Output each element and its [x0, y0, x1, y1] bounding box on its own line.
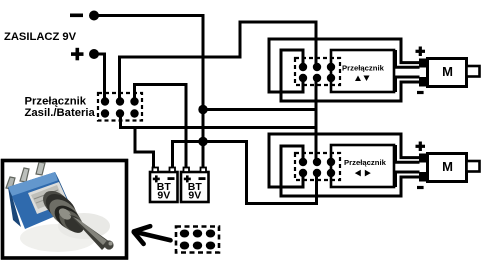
switch U2 pin 2 — [313, 158, 321, 166]
motor M2 plus terminal — [419, 154, 428, 163]
wire junction J2 left to battery 1 minus post — [173, 142, 204, 169]
switch U1 dashed box — [295, 58, 340, 85]
wire power switch top-right pin over to battery 2 plus post — [135, 85, 187, 169]
battery BT1 body — [150, 172, 178, 202]
switch U1 down arrow — [364, 76, 370, 82]
switch U1 pin 2 — [313, 63, 321, 71]
connector pin 1 — [180, 230, 189, 238]
arrow pointing to photo — [135, 232, 171, 241]
motor M1 shaft — [467, 66, 480, 77]
svg-text:ZASILACZ 9V: ZASILACZ 9V — [4, 31, 77, 43]
photo shadow — [20, 224, 96, 252]
wire box-top extension to motor plus lead 2 — [396, 50, 420, 67]
battery BT2 labels — [184, 178, 191, 181]
connector pin 2 — [193, 230, 202, 238]
wire C-up: top-left pin loop to motor minus lead 2 — [281, 50, 420, 101]
switch U2 pin 5 — [313, 169, 321, 177]
motor M2 plus mark — [416, 145, 426, 148]
battery BT2 plus post — [184, 168, 190, 173]
power switch pin 5 — [116, 109, 124, 117]
switch U1 pin 4 — [299, 74, 307, 82]
motor M2 body — [428, 154, 467, 182]
power switch pin 3 — [130, 97, 138, 105]
wire C-low: top-left pin loop to motor minus lead 2 — [281, 146, 420, 196]
svg-text:Zasil./Bateria: Zasil./Bateria — [25, 107, 96, 119]
switch blue body — [8, 172, 72, 229]
svg-text:9V: 9V — [188, 190, 201, 202]
wire power switch bottom-middle pin down right to middle rail — [121, 114, 317, 128]
connector pin 6 — [206, 242, 215, 250]
node junction J1 — [198, 105, 207, 114]
power switch pin 1 — [101, 97, 109, 105]
power switch dashed box — [98, 93, 142, 121]
switch U1 pin 6 — [327, 74, 335, 82]
switch U1 up arrow — [355, 76, 361, 82]
wire middle rail: upper switch bottom-middle down to lower switch top-middle — [315, 78, 318, 162]
switch U2 left arrow — [355, 170, 361, 177]
switch body label — [28, 182, 68, 214]
battery BT1 labels — [153, 178, 160, 181]
svg-text:M: M — [442, 159, 453, 174]
switch U2 pin 4 — [299, 169, 307, 177]
switch pins — [6, 177, 15, 189]
switch U2 right arrow — [365, 170, 371, 177]
wire box-bottom extension to motor minus lead 1 — [396, 172, 420, 187]
wire minus rail: from minus terminal right then down to battery 2 minus post — [94, 16, 203, 169]
power supply plus terminal — [71, 52, 84, 56]
svg-text:M: M — [442, 64, 453, 79]
svg-text:Przełącznik: Przełącznik — [344, 158, 387, 167]
connector pinout dashed box — [176, 227, 219, 253]
node plus junction dot — [89, 49, 99, 59]
node junction J2 — [198, 137, 207, 146]
motor M2 minus mark — [417, 186, 424, 189]
motor M2 shaft — [467, 161, 480, 172]
power switch pin 4 — [101, 109, 109, 117]
switch U2 pin 1 — [299, 158, 307, 166]
motor M1 plus terminal — [419, 59, 428, 68]
wire plus feed to power switch top-left pin — [94, 54, 105, 102]
svg-text:Przełącznik: Przełącznik — [342, 63, 385, 72]
power switch pin 2 — [116, 97, 124, 105]
redraw frame above photo art — [3, 161, 127, 259]
battery BT1 plus post — [153, 168, 159, 173]
wire B-low: bottom-left pin loop to motor plus lead 1 — [269, 134, 420, 187]
motor M1 body — [428, 59, 467, 87]
battery BT2 minus post — [201, 168, 207, 173]
power switch pin 6 — [130, 109, 138, 117]
connector pin 4 — [180, 242, 189, 250]
switch lever — [69, 214, 110, 250]
switch U2 solid box — [331, 145, 394, 187]
motor M1 minus mark — [417, 91, 424, 94]
switch U2 dashed box — [295, 153, 340, 180]
node minus junction dot — [89, 11, 99, 21]
motor M1 minus terminal — [419, 77, 428, 87]
switch U2 pin 6 — [327, 169, 335, 177]
wire box-top extension to motor plus lead 2 — [396, 145, 420, 162]
svg-text:9V: 9V — [157, 190, 170, 202]
svg-text:Przełącznik: Przełącznik — [25, 95, 87, 107]
switch U2 pin 3 — [327, 158, 335, 166]
switch U1 pin 1 — [299, 63, 307, 71]
wire A: power switch top-middle pin up and right to upper switch top-middle pin — [120, 22, 317, 102]
switch bushing ring stack — [38, 186, 76, 223]
switch U1 solid box — [331, 50, 394, 92]
wire box-bottom extension to motor minus lead 1 — [396, 77, 420, 92]
power supply minus terminal — [70, 14, 83, 18]
motor M2 minus terminal — [419, 172, 428, 182]
wire branch down to battery 1 plus post — [135, 128, 154, 169]
battery BT2 body — [181, 172, 209, 202]
switch U1 pin 5 — [313, 74, 321, 82]
battery BT1 minus post — [170, 168, 176, 173]
switch photo frame — [3, 161, 127, 259]
switch U1 pin 3 — [327, 63, 335, 71]
wire minus feed to upper switch bottom-middle pin — [203, 108, 316, 111]
motor M1 plus mark — [416, 50, 426, 53]
wire junction J2 right and under batteries to lower switch bottom-middle pin — [203, 142, 317, 204]
wire B-up: bottom-left pin loop to motor plus lead 1 — [269, 39, 420, 92]
connector pin 3 — [206, 230, 215, 238]
connector pin 5 — [193, 242, 202, 250]
